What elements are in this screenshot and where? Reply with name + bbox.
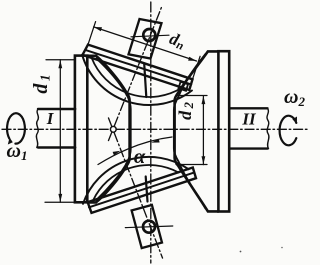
- svg-text:II: II: [241, 110, 257, 129]
- svg-text:α: α: [134, 146, 146, 168]
- wire: vertical centerline of cavity: [150, 2, 152, 263]
- dimension d1: dimension line with arrows: [59, 60, 61, 203]
- rotation symbol omega2 (right): [280, 116, 297, 146]
- bolt (top roller pivot): [143, 29, 155, 41]
- bolt cross line (bottom): [125, 226, 173, 228]
- roller (top): swing arc inner (centered at bolt): [92, 58, 183, 97]
- wheel I: concave toroidal working surface (near contour): [87, 56, 129, 203]
- roller (bottom): swing arc inner (centered at bolt): [93, 165, 179, 200]
- roller (bottom): inner edge line: [89, 173, 194, 208]
- roller (top): disc seen edge-on, tilted bar: [83, 45, 193, 90]
- bolt cross line (top): [131, 35, 169, 37]
- roller (top): swing arc outer (centered at bolt): [82, 55, 192, 105]
- bolt (bottom roller pivot): [143, 221, 155, 233]
- wire: horizontal main axis centerline: [2, 128, 308, 130]
- angle alpha: arc with inward arrows at spindle axis and centerline: [98, 137, 172, 165]
- wheel II: toroid surface far contour: [174, 54, 206, 209]
- roller (top): far fork arm edge: [144, 64, 146, 98]
- dimension d1: extension lines: [45, 60, 75, 203]
- wheel I: left toroid disc rim: [75, 56, 87, 203]
- dimension dp: extension lines perpendicular to roller: [88, 22, 200, 80]
- speck: [281, 247, 283, 249]
- wire: top roller spindle axis (dash-dot through pivot and top bolt): [109, 6, 163, 141]
- roller carrier (top): fork block: [129, 19, 162, 59]
- roller (bottom): disc seen edge-on, tilted bar: [88, 168, 196, 213]
- dimension dp: dimension line parallel to roller with arrows: [94, 27, 197, 61]
- roller carrier (bottom): fork block: [132, 205, 162, 248]
- dimension d2: dimension line with arrows: [202, 96, 204, 165]
- roller (bottom): swing arc outer (centered at bolt): [83, 157, 189, 204]
- wheel II: concave toroidal working surface (near contour): [175, 51, 219, 211]
- shaft II: output shaft with break line: [229, 108, 267, 148]
- shaft I: input shaft with break line: [38, 109, 75, 148]
- rotation symbol omega1 (left): [7, 113, 25, 143]
- wheel II: right toroid disc rim: [218, 51, 229, 211]
- node: pivot center of roller tilt: [110, 126, 116, 132]
- dimension d2: extension lines: [176, 96, 207, 165]
- roller (bottom): far fork arm edge: [146, 177, 148, 202]
- roller (top): inner edge line: [85, 50, 191, 85]
- roller (top): end stub: [179, 82, 189, 91]
- speck: [240, 251, 242, 253]
- wire: bottom roller spindle axis (dash-dot through pivot and bottom bolt): [109, 118, 163, 258]
- wheel I: toroid surface far contour: [97, 59, 131, 200]
